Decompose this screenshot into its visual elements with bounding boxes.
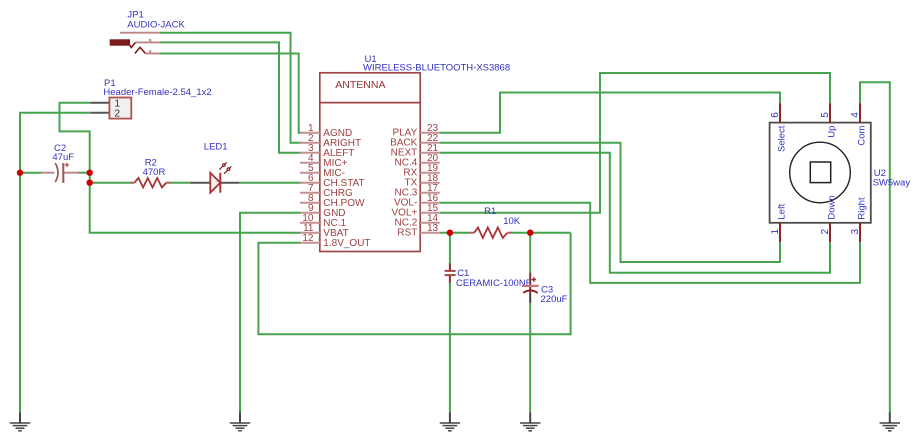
svg-text:10K: 10K xyxy=(503,216,521,227)
svg-text:Com: Com xyxy=(856,126,867,146)
svg-text:ANTENNA: ANTENNA xyxy=(335,79,385,91)
svg-text:Select: Select xyxy=(776,125,787,152)
svg-text:2: 2 xyxy=(820,229,831,235)
svg-text:5: 5 xyxy=(820,112,831,118)
svg-text:Up: Up xyxy=(826,126,837,138)
svg-text:6: 6 xyxy=(770,112,781,118)
svg-text:Header-Female-2.54_1x2: Header-Female-2.54_1x2 xyxy=(103,87,211,98)
svg-text:RST: RST xyxy=(397,228,417,239)
svg-text:3: 3 xyxy=(850,229,861,235)
svg-text:1: 1 xyxy=(770,229,781,235)
svg-text:R1: R1 xyxy=(484,206,496,217)
svg-text:220uF: 220uF xyxy=(541,294,568,305)
svg-text:Left: Left xyxy=(776,203,787,219)
svg-text:WIRELESS-BLUETOOTH-XS3868: WIRELESS-BLUETOOTH-XS3868 xyxy=(363,62,510,73)
svg-text:2: 2 xyxy=(115,109,121,120)
svg-text:47uF: 47uF xyxy=(52,152,74,163)
svg-text:LED1: LED1 xyxy=(204,142,228,153)
svg-text:Right: Right xyxy=(856,197,867,220)
svg-text:1.8V_OUT: 1.8V_OUT xyxy=(323,238,370,249)
svg-text:12: 12 xyxy=(302,233,314,244)
svg-text:Down: Down xyxy=(826,195,837,219)
svg-text:CERAMIC-100NF: CERAMIC-100NF xyxy=(456,278,532,289)
svg-text:13: 13 xyxy=(427,223,439,234)
svg-text:AUDIO-JACK: AUDIO-JACK xyxy=(127,20,185,31)
svg-text:SW5way: SW5way xyxy=(873,177,911,188)
svg-text:470R: 470R xyxy=(143,167,166,178)
svg-text:4: 4 xyxy=(850,112,861,118)
